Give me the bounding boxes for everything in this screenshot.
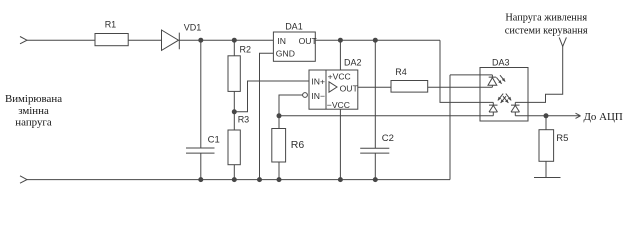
svg-text:IN: IN: [277, 36, 286, 46]
PD2 light arrows: [503, 94, 511, 103]
svg-text:R2: R2: [240, 44, 252, 54]
ground bar: [534, 177, 561, 179]
LED light arrows: [496, 75, 505, 84]
wire R3 to rail: [233, 165, 235, 180]
wire R5 to ground: [545, 161, 547, 177]
svg-text:Вимірювана: Вимірювана: [5, 93, 62, 105]
wire input to R1: [27, 39, 95, 41]
wire LED cathode return: [450, 75, 492, 180]
svg-text:R5: R5: [556, 133, 568, 144]
svg-text:VD1: VD1: [184, 23, 202, 33]
photodiode PD1 (feedback): [489, 102, 498, 115]
op IC DA1: [273, 32, 315, 61]
wire PD2 anode to output node: [515, 115, 546, 117]
wire divider to IN+: [234, 81, 309, 112]
svg-text:Напруга живлення: Напруга живлення: [505, 13, 587, 24]
node C2 branch: [373, 38, 377, 42]
wire C2 to rail: [374, 153, 376, 180]
resistor R5: [539, 130, 554, 162]
bottom rail: [27, 179, 450, 181]
svg-text:C1: C1: [208, 134, 220, 145]
wire output arrow: [546, 113, 581, 118]
svg-text:R1: R1: [105, 19, 117, 29]
input terminal bottom: [20, 176, 27, 183]
wire C2 branch down: [374, 40, 376, 148]
wire IN- to feedback node: [279, 95, 303, 116]
wire PD2 cathode to supply: [515, 46, 562, 102]
svg-text:DA2: DA2: [344, 58, 362, 68]
resistor R2: [228, 56, 240, 92]
supply terminal: [559, 37, 566, 46]
svg-text:OUT: OUT: [340, 83, 359, 93]
svg-text:змінна: змінна: [18, 105, 49, 117]
op-amp DA2 box: [309, 70, 358, 109]
wire DA1 OUT bus: [315, 39, 440, 41]
resistor R1: [95, 34, 128, 46]
svg-text:−VCC: −VCC: [327, 100, 350, 110]
node R2-R3 divider: [232, 110, 236, 114]
PD1 light arrows: [498, 94, 506, 103]
svg-text:GND: GND: [276, 49, 295, 59]
capacitor C2: [360, 148, 389, 153]
svg-text:напруга: напруга: [15, 116, 52, 128]
svg-text:DA1: DA1: [285, 22, 303, 32]
capacitor C1: [186, 148, 215, 153]
wire R4 to LED: [428, 86, 493, 88]
node R2 branch: [232, 38, 236, 42]
wire R6 to rail: [278, 162, 280, 180]
wire C1 to rail: [200, 153, 202, 180]
op-amp DA2 triangle: [329, 82, 337, 92]
svg-text:R4: R4: [395, 67, 407, 77]
svg-text:R6: R6: [291, 139, 305, 151]
wire R2 to R3: [233, 91, 235, 130]
diode VD1: [162, 30, 180, 50]
wire R1 to VD1: [128, 39, 161, 41]
input terminal top: [20, 37, 27, 44]
wire DA2 OUT to R4: [358, 86, 391, 88]
svg-text:DA3: DA3: [492, 57, 510, 67]
wire supply to PD1 cathode: [440, 40, 493, 102]
svg-text:До АЦП: До АЦП: [584, 111, 623, 123]
inversion circle IN-: [303, 93, 308, 98]
wire node to R2: [233, 40, 235, 56]
svg-text:+VCC: +VCC: [328, 71, 351, 81]
wire node to C1: [200, 40, 202, 148]
LED in DA3: [488, 75, 497, 87]
node output: [544, 114, 548, 118]
node C1 branch: [199, 38, 203, 42]
photodiode PD2 (output): [511, 102, 520, 115]
resistor R3: [228, 130, 240, 165]
svg-text:R3: R3: [238, 115, 250, 125]
wire node to R6: [278, 116, 280, 129]
wire DA1 GND down: [260, 53, 274, 179]
wire +VCC lead: [339, 40, 341, 70]
resistor R6: [272, 129, 286, 163]
svg-text:IN−: IN−: [311, 91, 325, 101]
wire VD1 to DA1: [179, 39, 273, 41]
wire output to R5: [545, 116, 547, 130]
svg-text:OUT: OUT: [299, 36, 318, 46]
wire feedback line to photodiode: [279, 115, 493, 117]
optocoupler DA3 box: [480, 68, 528, 122]
node DA2 +VCC branch: [338, 38, 342, 42]
svg-text:C2: C2: [382, 133, 394, 144]
rail nodes: [199, 178, 203, 182]
svg-text:системи керування: системи керування: [505, 26, 588, 37]
svg-text:IN+: IN+: [311, 76, 325, 86]
wire -VCC lead to rail: [339, 109, 341, 179]
resistor R4: [391, 81, 428, 93]
node feedback: [277, 114, 281, 118]
